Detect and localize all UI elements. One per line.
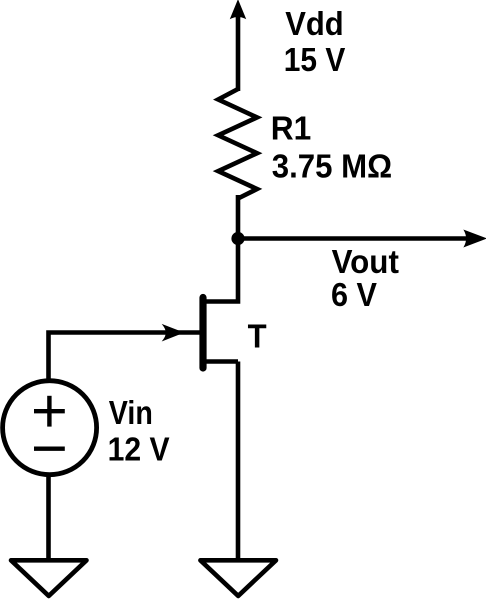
svg-text:T: T — [248, 317, 267, 354]
node output junction — [231, 232, 244, 245]
svg-text:Vdd: Vdd — [285, 5, 344, 42]
ground (left) — [11, 560, 87, 596]
svg-text:R1: R1 — [271, 110, 312, 147]
resistor R1 — [218, 89, 257, 199]
svg-text:6 V: 6 V — [331, 276, 377, 313]
power rail Vdd arrow — [231, 1, 246, 92]
svg-text:12 V: 12 V — [108, 430, 170, 467]
svg-text:3.75 MΩ: 3.75 MΩ — [272, 148, 392, 185]
transistor T — [203, 298, 238, 369]
svg-text:Vout: Vout — [332, 243, 399, 280]
wire gate from Vin — [49, 325, 200, 381]
wire resistor to node — [236, 195, 241, 240]
svg-text:Vin: Vin — [109, 394, 153, 431]
ground (right) — [200, 560, 276, 596]
wire Vout with arrow — [238, 230, 486, 246]
wire Vin to ground — [46, 474, 51, 561]
svg-text:15 V: 15 V — [284, 41, 346, 78]
wire source to ground — [236, 362, 241, 562]
voltage source Vin — [3, 381, 97, 475]
wire node to drain — [204, 239, 238, 302]
